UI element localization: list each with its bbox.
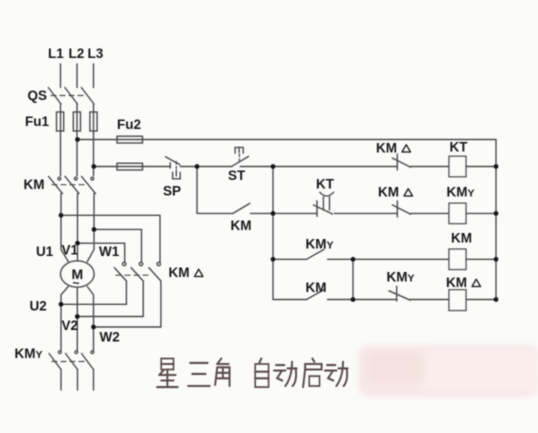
wire below KMY pole2	[77, 370, 79, 391]
fuse Fu1 pole 1	[57, 112, 64, 131]
left bus vertical	[272, 167, 274, 300]
svg-text:KT: KT	[316, 177, 335, 192]
contactor KMY pole2 blade	[66, 354, 78, 370]
svg-text:~: ~	[73, 276, 80, 290]
node dot rung4 mid	[351, 297, 356, 302]
triangle of KM-delta rung1 label	[402, 145, 411, 152]
node dot bus rung2	[271, 211, 276, 216]
triangle of KM-delta motor side label	[195, 269, 204, 276]
wire QS to Fu1 pole1	[60, 104, 62, 176]
contactor KMY pole3 circle	[91, 351, 94, 354]
switch QS pole 1 blade	[48, 88, 61, 105]
switch QS pole 2 blade	[65, 88, 78, 105]
node dot right rail rung3	[494, 257, 499, 262]
caption: xing san jiao zi dong qi dong (hand-drawn strokes)	[157, 359, 348, 388]
contactor KM-delta pole2 circle	[139, 262, 142, 265]
char san (three)	[188, 363, 210, 386]
contactor KM-delta pole3 circle	[157, 262, 160, 265]
svg-text:KMY: KMY	[306, 237, 334, 252]
wire KM-delta coil to right rail	[466, 299, 496, 301]
svg-text:KMY: KMY	[15, 346, 43, 361]
wire control rail 1 top	[78, 140, 497, 300]
contact KM-delta NC rung2 bar	[396, 201, 398, 217]
svg-text:ST: ST	[228, 168, 246, 183]
svg-text:V2: V2	[62, 318, 79, 333]
wire rung1 to KM-delta NC	[273, 166, 397, 168]
svg-text:SP: SP	[163, 184, 181, 199]
wire QS to Fu1 pole3	[93, 104, 95, 176]
motor lead bottom V2	[76, 287, 78, 351]
contactor KMY pole1 circle	[58, 351, 61, 354]
contactor KMY linkage dashed	[52, 361, 88, 363]
coil KT	[449, 156, 466, 176]
wire QS to Fu1 pole2	[76, 104, 78, 176]
node dot Fu2 lower tap	[91, 164, 96, 169]
contactor KM pole2 circle	[74, 177, 77, 180]
node dot Fu2 upper tap	[75, 137, 80, 142]
contact KM NO rung4 blade	[307, 290, 325, 300]
pushbutton ST actuator stem	[238, 147, 240, 152]
contactor KMY pole3 blade	[82, 354, 94, 370]
wire KM pole3 down to motor W1	[87, 194, 94, 262]
pushbutton ST actuator dashed	[238, 154, 240, 162]
node dot bus rung3	[271, 257, 276, 262]
watermark pink blob	[358, 345, 538, 397]
contact KM-delta NC rung1 bar	[396, 154, 398, 170]
coil KMY	[449, 203, 466, 223]
char dong2 (move)	[325, 362, 348, 386]
wire rung2 to KT contact	[273, 212, 317, 214]
contact KT timed cup arc	[320, 192, 334, 196]
svg-text:Fu2: Fu2	[117, 117, 141, 132]
svg-text:KM: KM	[446, 275, 467, 290]
wire KMY coil to right rail	[466, 212, 496, 214]
wire rung4 mid	[328, 299, 397, 301]
node dot U1 branch	[59, 213, 64, 218]
wire rung4 left	[273, 299, 307, 301]
wire rung3 mid	[328, 258, 450, 260]
wire KM pole2 down to motor V1	[77, 194, 79, 261]
svg-text:KMY: KMY	[447, 185, 475, 200]
node dot right rail rung4 corner	[494, 297, 499, 302]
contact KMY NC rung4 blade	[389, 291, 410, 300]
motor lead bottom U2	[61, 287, 68, 351]
svg-text:KM: KM	[376, 141, 397, 156]
wire L2 drop	[76, 64, 78, 88]
wire KM pole1 down to motor U1	[61, 194, 68, 262]
wire W1 branch to KM-delta pole2	[94, 229, 142, 262]
wire below KMY pole3	[93, 370, 95, 391]
svg-text:KT: KT	[450, 140, 469, 155]
wire KM-delta pole1 return to U2	[61, 281, 126, 304]
fuse Fu2 upper	[117, 136, 143, 143]
contact KT NC timed bar	[316, 201, 318, 217]
wire L3 drop	[93, 64, 95, 88]
contact KMY NO rung3 blade	[307, 249, 325, 259]
char zi (self)	[255, 359, 268, 388]
contactor KMY pole1 blade	[49, 354, 61, 370]
triangle of KM-delta rung2 label	[404, 189, 413, 196]
contactor KM-delta pole3 blade	[149, 268, 161, 281]
wire to KT coil	[411, 166, 449, 168]
svg-text:U1: U1	[36, 244, 54, 259]
wire to KMY coil	[411, 212, 449, 214]
node dot W1 branch	[92, 227, 97, 232]
wire rung3 left	[273, 258, 307, 260]
svg-text:KM: KM	[24, 177, 45, 192]
svg-text:KM: KM	[169, 265, 190, 280]
pushbutton SP actuator stem	[175, 171, 177, 177]
pushbutton SP blade	[165, 157, 180, 165]
node dot right rail rung1	[494, 164, 499, 169]
contactor KM pole3 circle	[91, 177, 94, 180]
char jiao (angle)	[215, 359, 229, 387]
svg-text:L3: L3	[88, 46, 104, 61]
wire KM coil to right rail	[466, 258, 496, 260]
svg-text:W1: W1	[99, 244, 120, 259]
contactor KM pole1 blade	[49, 176, 63, 193]
contactor KM pole3 blade	[82, 176, 96, 193]
wire to KM-delta coil	[410, 299, 449, 301]
contactor KM pole2 blade	[65, 176, 79, 193]
contactor KM-delta pole1 blade	[114, 268, 126, 281]
wire V1 branch to KM-delta pole1	[78, 243, 125, 262]
motor lead bottom W2	[87, 287, 93, 351]
node dot SP-ST junction	[195, 164, 200, 169]
wire KM-delta pole3 return to W2	[94, 281, 161, 327]
svg-text:W2: W2	[100, 330, 120, 345]
contactor KM-delta pole1 circle	[123, 262, 126, 265]
fuse Fu1 pole 3	[90, 112, 97, 131]
contactor KM pole1: circle	[58, 177, 61, 180]
coil KM	[449, 249, 466, 269]
contact KT timed cup lines	[322, 197, 324, 210]
wire KM-delta pole2 return to V2	[77, 281, 143, 317]
svg-text:KM: KM	[231, 218, 252, 233]
pushbutton SP actuator bracket	[173, 172, 181, 179]
wire L1 drop	[60, 64, 62, 88]
wire ST to bus	[240, 166, 273, 168]
char xing (star)	[157, 359, 178, 388]
node dot V2	[75, 314, 80, 319]
pushbutton ST actuator bracket	[235, 147, 243, 153]
contact KM-delta NC rung2 blade	[392, 205, 410, 214]
contact KM-delta NC rung1 blade	[392, 158, 410, 167]
switch QS pole 3 blade	[81, 88, 94, 105]
contact KMY NC rung4 bar	[396, 286, 398, 301]
node dot W2	[91, 325, 96, 330]
svg-text:KM: KM	[306, 280, 327, 295]
svg-text:QS: QS	[28, 88, 48, 103]
contactor KMY pole2 circle	[75, 351, 78, 354]
wire KT contact to KM-delta NC rung2	[334, 212, 397, 214]
node dot right rail rung2	[494, 211, 499, 216]
contactor KM-delta linkage dashed	[116, 274, 152, 276]
node dot rung3 mid	[351, 257, 356, 262]
wire below KMY pole1	[60, 370, 62, 391]
wire U1 branch to KM-delta pole3	[61, 215, 160, 262]
pushbutton SP left contact tick	[169, 163, 171, 168]
mid vertical rung3-rung4	[352, 259, 354, 299]
char qi (start)	[303, 359, 322, 388]
wire self-hold to KM contact	[197, 212, 233, 214]
fuse Fu2 lower	[117, 163, 143, 170]
contact KT NC timed blade	[314, 205, 333, 214]
triangle of KM-delta coil label	[472, 279, 481, 286]
wire SP to node A	[180, 166, 232, 168]
wire self-hold branch down	[196, 167, 198, 214]
svg-text:V1: V1	[62, 243, 79, 258]
contact KM NO self-hold blade	[233, 203, 250, 213]
switch QS linkage dashed	[51, 95, 87, 97]
wire KT coil to right rail	[466, 166, 496, 168]
svg-text:L2: L2	[69, 46, 85, 61]
pushbutton ST blade	[232, 156, 249, 166]
svg-text:KM: KM	[378, 185, 399, 200]
svg-text:L1: L1	[48, 46, 64, 61]
svg-text:KM: KM	[451, 231, 472, 246]
node dot bus top	[271, 164, 276, 169]
char dong (move)	[274, 362, 297, 386]
pushbutton SP actuator dashed	[175, 162, 177, 171]
svg-text:Fu1: Fu1	[25, 114, 49, 129]
node dot U2	[59, 302, 64, 307]
wire KM contact to bus	[251, 212, 274, 214]
svg-text:U2: U2	[30, 299, 47, 314]
contactor KM-delta pole2 blade	[131, 268, 143, 281]
contactor KM linkage dashed	[52, 184, 88, 186]
node dot V1 branch	[75, 241, 80, 246]
fuse Fu1 pole 2	[73, 112, 80, 131]
coil KM-delta	[449, 290, 466, 311]
motor M body	[61, 261, 95, 287]
svg-text:KMY: KMY	[387, 270, 415, 285]
wire control rail 2 left	[94, 166, 170, 168]
